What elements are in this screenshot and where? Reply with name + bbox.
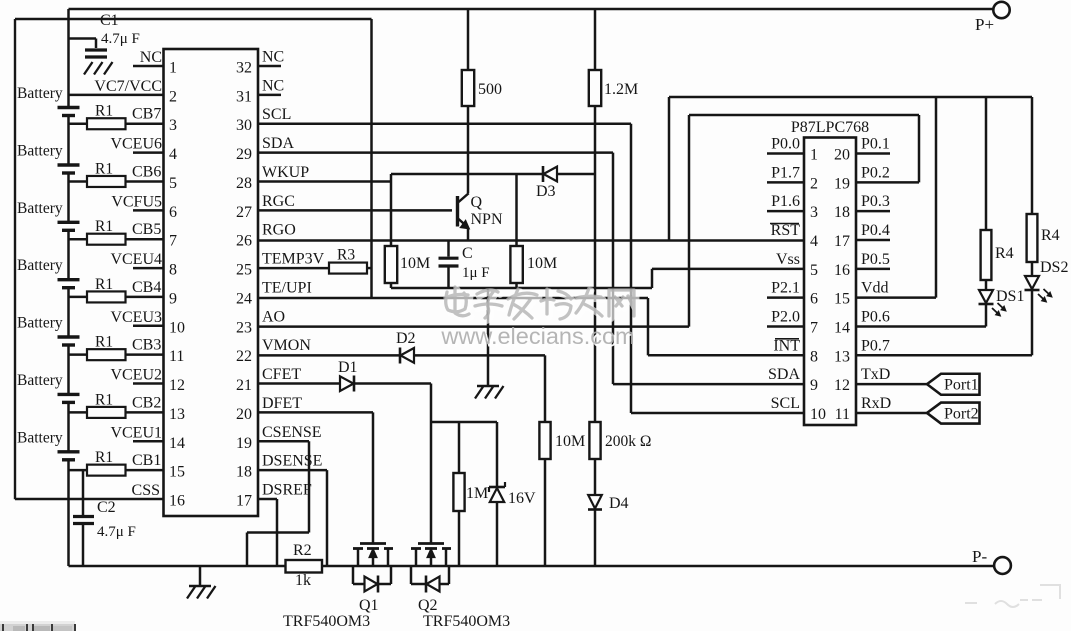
svg-text:Battery: Battery xyxy=(17,200,63,217)
wire 1.2M column top xyxy=(594,9,597,70)
diode D3 xyxy=(542,166,545,182)
resistor 1.2M xyxy=(589,70,601,106)
svg-text:VCEU2: VCEU2 xyxy=(110,367,162,384)
resistor R1 (row CB1) xyxy=(87,465,126,476)
wire pin 31 NC stub xyxy=(258,94,281,97)
svg-text:CB5: CB5 xyxy=(132,221,161,238)
svg-text:NC: NC xyxy=(262,77,284,94)
wire pin 3 CB7 left segment xyxy=(69,122,88,125)
svg-text:18: 18 xyxy=(236,464,252,481)
svg-text:NC: NC xyxy=(262,49,284,66)
svg-text:1μ F: 1μ F xyxy=(462,265,490,281)
ground mid schematic xyxy=(477,385,499,387)
wire TEMP3V segment (pin25) xyxy=(258,267,329,270)
svg-text:10M: 10M xyxy=(527,255,557,272)
svg-text:P0.1: P0.1 xyxy=(861,136,890,153)
svg-text:TRF540OM3: TRF540OM3 xyxy=(283,613,370,630)
svg-text:9: 9 xyxy=(810,377,818,394)
svg-text:CB1: CB1 xyxy=(132,452,161,469)
svg-text:R1: R1 xyxy=(95,276,113,293)
wire uC pin17 stub xyxy=(856,239,890,242)
svg-text:INT: INT xyxy=(773,337,800,354)
terminal P+ xyxy=(993,2,1009,18)
svg-text:P2.1: P2.1 xyxy=(771,280,800,297)
wire pin 12 stub VCEU2 xyxy=(133,382,164,385)
wire pin 5 CB6 left segment xyxy=(69,180,88,183)
svg-text:8: 8 xyxy=(810,348,818,365)
wire inner loop top xyxy=(689,114,919,117)
svg-text:20: 20 xyxy=(236,406,252,423)
wire CSENSE (pin19) xyxy=(258,440,309,443)
svg-text:VC7/VCC: VC7/VCC xyxy=(94,78,162,95)
MOSFET gate bar xyxy=(360,542,386,545)
svg-text:15: 15 xyxy=(834,291,850,308)
wire CSENSE jog to rail xyxy=(246,533,249,567)
svg-text:SDA: SDA xyxy=(262,135,294,152)
svg-text:CFET: CFET xyxy=(262,366,301,383)
wire vertical x648 TE/UPI to INT xyxy=(647,298,650,355)
capacitor C 1uF xyxy=(439,257,459,260)
svg-text:26: 26 xyxy=(236,233,252,250)
wire uC pin2 stub xyxy=(767,181,804,184)
svg-text:Battery: Battery xyxy=(17,429,63,446)
svg-text:Port1: Port1 xyxy=(944,377,979,394)
resistor R1 (row CB2) xyxy=(87,407,126,418)
svg-text:30: 30 xyxy=(236,117,252,134)
body diode (cathode right) xyxy=(365,577,378,592)
battery B4 xyxy=(58,278,80,281)
resistor 10M left xyxy=(385,246,397,283)
wire zener column top xyxy=(496,422,499,487)
wire D2 to 10M column xyxy=(414,354,545,357)
svg-text:WKUP: WKUP xyxy=(262,164,309,181)
wire top second rail xyxy=(15,18,372,20)
wire pin 11 CB3 right segment xyxy=(126,353,164,356)
svg-text:28: 28 xyxy=(236,175,252,192)
svg-text:R4: R4 xyxy=(1041,227,1060,244)
svg-text:2: 2 xyxy=(169,88,177,105)
wire CSENSE vertical xyxy=(308,441,311,532)
resistor R1 (row CB6) xyxy=(87,176,126,187)
wire pin 13 CB2 right segment xyxy=(126,411,164,414)
svg-text:CB3: CB3 xyxy=(132,337,161,354)
svg-text:CB6: CB6 xyxy=(132,163,161,180)
svg-text:7: 7 xyxy=(810,319,818,336)
svg-text:Q1: Q1 xyxy=(359,597,379,614)
svg-text:D3: D3 xyxy=(536,183,556,200)
svg-text:P0.6: P0.6 xyxy=(861,308,890,325)
svg-text:CB7: CB7 xyxy=(132,106,161,123)
battery B6 xyxy=(58,393,80,396)
svg-text:P1.6: P1.6 xyxy=(771,193,800,210)
resistor R1 (row CB4) xyxy=(87,291,126,302)
svg-text:32: 32 xyxy=(236,60,252,77)
svg-text:5: 5 xyxy=(169,175,177,192)
wire vertical bus x371 from top rail xyxy=(370,19,373,298)
MOSFET body diode loop xyxy=(410,566,413,584)
svg-text:1k: 1k xyxy=(295,572,311,589)
MOSFET drain contact xyxy=(357,549,360,567)
svg-text:13: 13 xyxy=(169,406,185,423)
svg-text:NC: NC xyxy=(140,49,162,66)
svg-text:VCEU3: VCEU3 xyxy=(110,309,162,326)
svg-text:6: 6 xyxy=(169,204,177,221)
svg-text:DSREF: DSREF xyxy=(262,482,312,499)
wire pin 15 CB1 right segment xyxy=(126,469,164,472)
diode D1 xyxy=(340,376,354,391)
svg-text:R2: R2 xyxy=(293,542,312,559)
svg-text:19: 19 xyxy=(834,175,850,192)
svg-text:R1: R1 xyxy=(95,218,113,235)
wire uC pin16 stub xyxy=(856,268,890,271)
svg-text:22: 22 xyxy=(236,348,252,365)
wire TxD to Port1 xyxy=(856,383,927,386)
ground at bottom rail xyxy=(189,585,211,587)
wire SDA net vertical xyxy=(612,153,615,385)
wire D1 to Q2 gate corner xyxy=(354,382,431,385)
wire battery column top segment xyxy=(67,9,70,108)
svg-text:SDA: SDA xyxy=(768,366,800,383)
wire battery column segment xyxy=(67,288,70,337)
wire DSREF vertical to rail xyxy=(276,499,279,566)
svg-text:16: 16 xyxy=(834,262,850,279)
wire pin 4 stub VCEU6 xyxy=(133,151,164,154)
wire 10M right bottom stub xyxy=(515,283,518,288)
wire uC pin1 stub xyxy=(767,152,804,155)
MOSFET source contact xyxy=(445,549,448,567)
capacitor C2 xyxy=(73,515,94,518)
battery B5 xyxy=(58,335,80,338)
wire R4b column top xyxy=(1031,97,1034,214)
wire R3 to vertical xyxy=(367,267,372,270)
svg-text:P0.7: P0.7 xyxy=(861,337,890,354)
svg-text:11: 11 xyxy=(835,406,850,423)
wire capacitor C bottom stub xyxy=(447,268,450,289)
LED DS2 xyxy=(1025,276,1039,289)
battery B2 xyxy=(58,163,80,166)
svg-text:P0.4: P0.4 xyxy=(861,222,890,239)
wire Q1 gate vertical xyxy=(372,412,375,543)
capacitor C1 top wire xyxy=(69,37,97,40)
wire pin 8 stub VCEU4 xyxy=(133,267,164,270)
svg-text:VCEU1: VCEU1 xyxy=(110,424,162,441)
wire left border vertical xyxy=(14,19,16,499)
svg-text:10M: 10M xyxy=(400,255,430,272)
transistor Q collector diagonal xyxy=(458,193,469,202)
svg-text:DS1: DS1 xyxy=(996,288,1024,305)
svg-text:3: 3 xyxy=(169,117,177,134)
wire top rail y97 xyxy=(669,96,1032,98)
wire CFET segment (pin21) xyxy=(258,382,340,385)
LED DS2 arrows xyxy=(1038,289,1052,302)
body diode (cathode left) xyxy=(425,576,428,593)
wire pin 16 CSS from left border xyxy=(15,498,164,501)
transistor Q1 NPN base bar xyxy=(456,196,459,227)
svg-text:R1: R1 xyxy=(95,334,113,351)
svg-text:Battery: Battery xyxy=(17,257,63,274)
wire vertical x689 AO to inner loop xyxy=(688,115,691,327)
diode D2 xyxy=(399,348,402,364)
wire ground vertical from Vss rail xyxy=(487,288,490,386)
wire zener to rail xyxy=(496,502,499,566)
MOSFET body arrow xyxy=(430,554,433,566)
svg-text:12: 12 xyxy=(834,377,850,394)
wire pin 15 CB1 left segment xyxy=(69,469,88,472)
MOSFET gate bar xyxy=(418,542,444,545)
overline INT xyxy=(775,338,799,340)
svg-text:4: 4 xyxy=(169,146,177,163)
watermark site name xyxy=(445,287,636,322)
svg-text:Q: Q xyxy=(471,194,483,211)
wire 10M right top stub xyxy=(515,174,518,246)
IC U2 P87LPC768 body xyxy=(804,138,856,426)
resistor R4 (DS1) xyxy=(981,230,992,280)
svg-text:TEMP3V: TEMP3V xyxy=(262,251,325,268)
svg-text:R3: R3 xyxy=(337,247,355,264)
svg-text:C1: C1 xyxy=(100,12,119,29)
wire battery column segment xyxy=(67,402,70,451)
svg-text:Battery: Battery xyxy=(17,85,63,102)
watermark residue bottom right xyxy=(965,585,1060,607)
svg-text:C2: C2 xyxy=(97,499,116,516)
wire 10M column upper xyxy=(544,355,547,422)
wire 500 column top xyxy=(467,9,470,70)
svg-text:CSS: CSS xyxy=(132,482,160,499)
svg-text:CB4: CB4 xyxy=(132,279,161,296)
svg-text:10M: 10M xyxy=(555,433,585,450)
wire TE/UPI net (pin24) xyxy=(258,297,648,300)
svg-text:AO: AO xyxy=(262,308,285,325)
svg-text:Battery: Battery xyxy=(17,372,63,389)
IC U1 body xyxy=(164,49,259,516)
MOSFET source contact xyxy=(387,549,390,567)
svg-text:10: 10 xyxy=(169,319,185,336)
svg-text:TRF540OM3: TRF540OM3 xyxy=(423,613,510,630)
svg-text:D1: D1 xyxy=(338,359,358,376)
LED DS1 xyxy=(979,290,993,303)
wire 10M left bottom stub xyxy=(390,283,393,288)
wire CSENSE jog horizontal xyxy=(247,531,309,534)
svg-text:P0.5: P0.5 xyxy=(861,251,890,268)
svg-text:P2.0: P2.0 xyxy=(771,308,800,325)
svg-text:P0.3: P0.3 xyxy=(861,193,890,210)
wire inner loop to uC pin19 P0.2 xyxy=(856,181,919,184)
wire pin 5 CB6 right segment xyxy=(126,180,164,183)
wire R4a to DS1 xyxy=(985,280,988,290)
MOSFET body arrow xyxy=(372,554,375,566)
svg-text:Vdd: Vdd xyxy=(861,280,889,297)
svg-text:4: 4 xyxy=(810,233,818,250)
svg-text:Vss: Vss xyxy=(776,251,800,268)
wire emitter to RGO line xyxy=(467,228,470,241)
wire pin 2 VC7/VCC xyxy=(69,94,164,97)
wire pin 13 CB2 left segment xyxy=(69,411,88,414)
resistor R2 xyxy=(286,560,323,573)
svg-text:www.elecians.com: www.elecians.com xyxy=(440,323,634,349)
svg-text:23: 23 xyxy=(236,319,252,336)
svg-text:31: 31 xyxy=(236,88,252,105)
wire ground stub xyxy=(199,566,202,586)
wire vertical x669 top rail to RST line xyxy=(668,97,671,241)
svg-text:15: 15 xyxy=(169,464,185,481)
wire RxD to Port2 xyxy=(856,412,927,415)
wire 10M bottom to rail xyxy=(544,459,547,566)
battery B3 xyxy=(58,221,80,224)
svg-text:SCL: SCL xyxy=(262,106,291,123)
svg-text:11: 11 xyxy=(169,348,184,365)
wire R4b to DS2 xyxy=(1031,262,1034,276)
svg-text:Battery: Battery xyxy=(17,315,63,332)
resistor R1 (row CB5) xyxy=(87,234,126,245)
wire SCL net vertical xyxy=(630,124,633,413)
wire R4a column top xyxy=(985,97,988,230)
svg-text:TxD: TxD xyxy=(861,366,890,383)
svg-text:16V: 16V xyxy=(508,490,536,507)
resistor 500 xyxy=(462,70,474,106)
resistor 10M right xyxy=(510,246,522,283)
svg-text:Port2: Port2 xyxy=(944,405,979,422)
wire D4 to rail xyxy=(594,510,597,567)
svg-text:D2: D2 xyxy=(396,330,416,347)
screenshot artifact bottom-left xyxy=(0,614,76,631)
wire bottom rail right of R2 xyxy=(322,565,994,567)
svg-text:RGO: RGO xyxy=(262,222,296,239)
wire pin 7 CB5 right segment xyxy=(126,238,164,241)
terminal P- xyxy=(994,557,1011,574)
overline RST xyxy=(770,222,799,224)
capacitor C2 bottom wire xyxy=(82,525,85,566)
wire uC pin7 stub xyxy=(767,325,804,328)
wire SDA net horizontal (pin29) xyxy=(258,151,613,154)
wire P+ top rail xyxy=(69,8,994,10)
wire RGC to transistor base (pin27) xyxy=(258,209,452,212)
wire battery column bottom segment xyxy=(67,460,70,566)
wire inner loop right vertical xyxy=(918,115,921,182)
wire battery column segment xyxy=(67,230,70,279)
svg-text:R1: R1 xyxy=(95,391,113,408)
wire bottom rail left of R2 xyxy=(69,565,287,567)
resistor 10M bottom xyxy=(539,422,550,459)
svg-text:1M: 1M xyxy=(466,485,488,502)
resistor 1M xyxy=(453,473,464,511)
wire pin 10 stub VCEU3 xyxy=(133,325,164,328)
svg-text:200k Ω: 200k Ω xyxy=(605,433,651,450)
wire P0.6 to DS1 xyxy=(856,325,986,328)
svg-text:24: 24 xyxy=(236,290,252,307)
svg-text:NPN: NPN xyxy=(471,211,503,228)
svg-text:9: 9 xyxy=(169,290,177,307)
wire DS2 to P0.7 xyxy=(1031,290,1034,355)
svg-text:VCFU5: VCFU5 xyxy=(111,193,162,210)
svg-text:7: 7 xyxy=(169,233,177,250)
svg-text:12: 12 xyxy=(169,377,185,394)
capacitor C top stub xyxy=(447,241,450,257)
svg-text:14: 14 xyxy=(834,319,850,336)
svg-text:29: 29 xyxy=(236,146,252,163)
wire AO net (pin23) xyxy=(258,325,689,328)
svg-text:6: 6 xyxy=(810,291,818,308)
wire DSREF (pin17) xyxy=(258,498,277,501)
svg-text:1: 1 xyxy=(810,147,818,164)
svg-text:P1.7: P1.7 xyxy=(771,164,800,181)
wire 1.2M column down to 200k xyxy=(594,106,597,422)
MOSFET drain contact xyxy=(415,549,418,567)
transistor Q emitter diagonal with arrow xyxy=(458,219,468,228)
svg-text:1: 1 xyxy=(169,60,177,77)
svg-text:DSENSE: DSENSE xyxy=(262,453,322,470)
svg-text:R4: R4 xyxy=(995,245,1014,262)
svg-text:RST: RST xyxy=(771,222,801,239)
wire gate branch horizontal y422 xyxy=(431,421,497,424)
wire INT to microcontroller pin8 xyxy=(648,354,804,357)
wire uC pin6 stub xyxy=(767,296,804,299)
wire WKUP (pin28) xyxy=(258,180,391,183)
wire SCL net horizontal (pin30) xyxy=(258,122,631,125)
wire Q2 gate vertical xyxy=(430,384,433,544)
svg-text:21: 21 xyxy=(236,377,252,394)
svg-text:13: 13 xyxy=(834,348,850,365)
wire Vss corner up xyxy=(651,269,654,288)
svg-text:17: 17 xyxy=(834,233,850,250)
battery B1 xyxy=(58,106,80,109)
svg-text:16: 16 xyxy=(169,493,185,510)
svg-text:P0.0: P0.0 xyxy=(771,136,800,153)
svg-text:P+: P+ xyxy=(975,15,994,34)
wire pin 1 stub NC xyxy=(133,65,164,68)
zener diode 16V xyxy=(489,486,505,489)
wire DFET segment (pin20) xyxy=(258,411,373,414)
svg-text:5: 5 xyxy=(810,262,818,279)
wire RGO/RST net (pin26 to uC pin4) xyxy=(258,239,804,242)
svg-text:Battery: Battery xyxy=(17,143,63,160)
resistor R1 (row CB7) xyxy=(87,118,126,129)
wire battery column segment xyxy=(67,345,70,394)
svg-text:P0.2: P0.2 xyxy=(861,164,890,181)
svg-text:RxD: RxD xyxy=(861,395,891,412)
svg-text:3: 3 xyxy=(810,204,818,221)
svg-text:500: 500 xyxy=(478,81,502,98)
connector Port1 xyxy=(927,374,980,395)
MOSFET channel segments xyxy=(411,547,421,550)
svg-text:VCEU6: VCEU6 xyxy=(110,136,162,153)
svg-text:D4: D4 xyxy=(609,495,629,512)
resistor R3 xyxy=(329,263,367,274)
svg-text:14: 14 xyxy=(169,435,185,452)
wire VMON segment (pin22) xyxy=(258,354,399,357)
svg-text:RGC: RGC xyxy=(262,193,295,210)
wire DSENSE vertical to rail xyxy=(326,470,329,566)
svg-text:19: 19 xyxy=(236,435,252,452)
svg-text:R1: R1 xyxy=(95,160,113,177)
svg-text:25: 25 xyxy=(236,262,252,279)
svg-text:CSENSE: CSENSE xyxy=(262,424,322,441)
svg-text:8: 8 xyxy=(169,262,177,279)
wire battery column segment xyxy=(67,173,70,222)
wire vertical x391 (WKUP/box) xyxy=(390,174,393,246)
svg-text:4.7μ F: 4.7μ F xyxy=(97,524,136,540)
wire SDA net to microcontroller pin9 xyxy=(613,383,804,386)
svg-text:VMON: VMON xyxy=(262,337,311,354)
diode D4 xyxy=(588,495,602,509)
svg-text:1.2M: 1.2M xyxy=(604,81,638,98)
svg-text:27: 27 xyxy=(236,204,252,221)
wire pin 6 stub VCFU5 xyxy=(133,209,164,212)
svg-text:DS2: DS2 xyxy=(1040,259,1068,276)
svg-text:17: 17 xyxy=(236,493,252,510)
svg-text:2: 2 xyxy=(810,175,818,192)
wire D3 to 1.2M column xyxy=(557,173,595,176)
svg-text:20: 20 xyxy=(834,147,850,164)
